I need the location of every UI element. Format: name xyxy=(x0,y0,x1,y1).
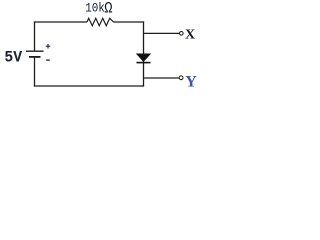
terminal X open circle xyxy=(180,32,184,36)
diode D1 (anode triangle, pointing down) xyxy=(137,54,151,62)
battery V1 long (+) plate xyxy=(26,50,44,52)
wire: top right horizontal (resistor to right corner) xyxy=(114,21,145,23)
battery minus sign xyxy=(46,59,50,61)
battery plus sign xyxy=(46,45,51,47)
battery V1 short (-) plate xyxy=(29,56,41,58)
wire: bottom horizontal xyxy=(34,85,144,87)
wire: right vertical (top corner through diode to bottom corner) xyxy=(143,21,145,86)
svg-text:5V: 5V xyxy=(4,48,23,66)
wire: left vertical upper (top corner down to battery + plate) xyxy=(34,21,36,51)
diode D1 cathode bar xyxy=(137,62,151,64)
svg-text:Ω: Ω xyxy=(104,1,112,18)
svg-text:Y: Y xyxy=(185,74,197,91)
svg-text:10k: 10k xyxy=(85,1,105,16)
wire: left vertical lower (battery - plate down to bottom corner) xyxy=(34,57,36,87)
terminal Y open circle xyxy=(179,76,183,80)
wire: Y branch horizontal xyxy=(144,77,180,79)
wire: top left horizontal (battery + to resistor) xyxy=(34,21,87,23)
resistor R1 zigzag xyxy=(87,18,114,25)
wire: X branch horizontal xyxy=(144,32,180,34)
svg-text:X: X xyxy=(185,28,195,43)
